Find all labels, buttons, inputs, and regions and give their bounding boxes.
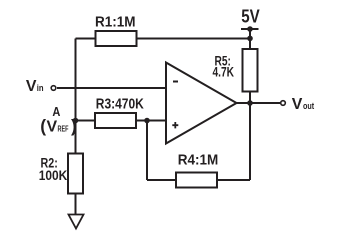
svg-text:): ) <box>71 116 77 136</box>
svg-text:R4:1M: R4:1M <box>178 152 219 169</box>
svg-text:A: A <box>52 104 60 119</box>
svg-text:4.7K: 4.7K <box>213 65 235 81</box>
svg-text:in: in <box>37 83 44 93</box>
svg-text:100K: 100K <box>39 168 68 184</box>
svg-text:out: out <box>303 101 314 111</box>
svg-text:V: V <box>292 96 303 113</box>
svg-text:R3:470K: R3:470K <box>96 95 144 112</box>
svg-text:R1:1M: R1:1M <box>95 14 136 31</box>
svg-text:V: V <box>26 78 37 95</box>
svg-text:V: V <box>47 119 58 136</box>
svg-text:5V: 5V <box>241 6 260 26</box>
svg-text:REF: REF <box>58 125 69 134</box>
svg-text:(: ( <box>40 116 46 136</box>
